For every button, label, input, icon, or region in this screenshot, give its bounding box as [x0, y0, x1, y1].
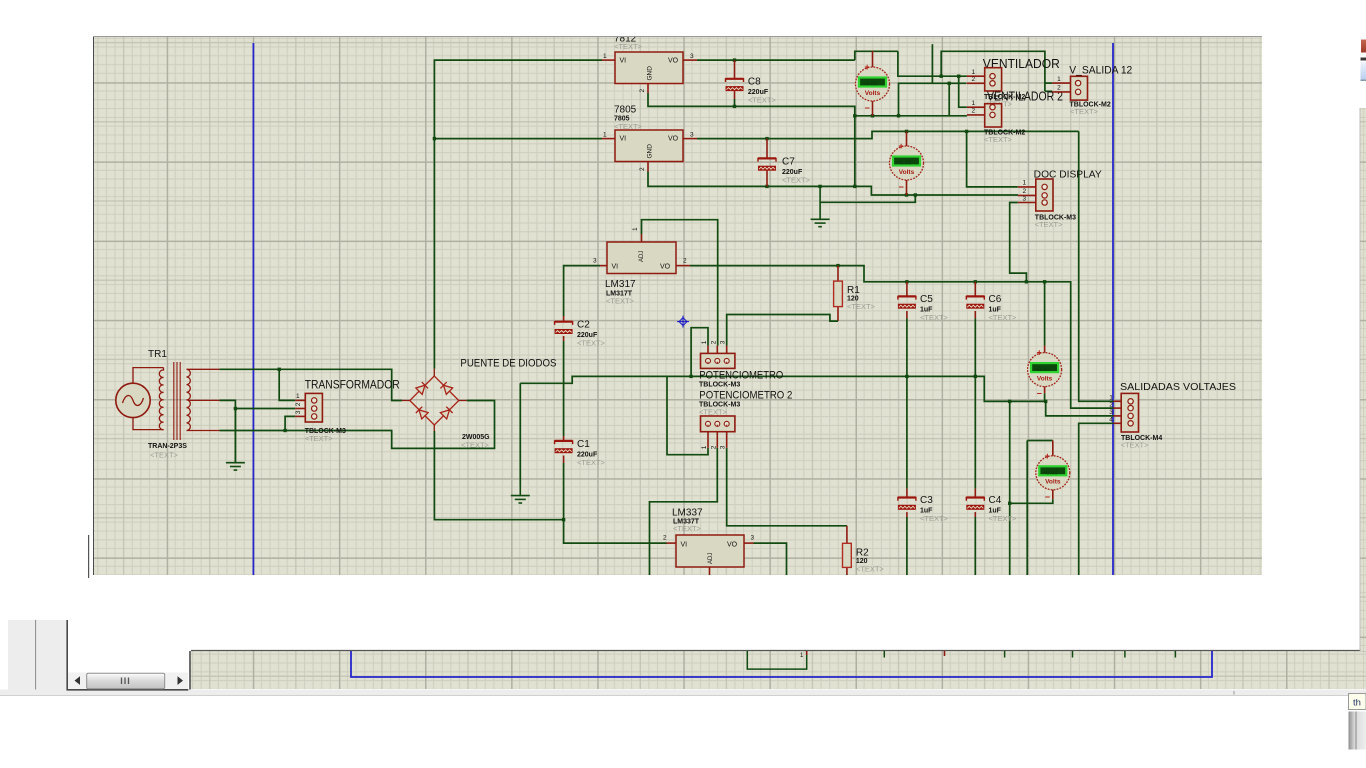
svg-text:<TEXT>: <TEXT> [305, 434, 334, 443]
svg-text:+: + [899, 141, 904, 151]
svg-text:VO: VO [668, 135, 679, 142]
wire R1 bottom lead [837, 307, 839, 322]
svg-text:TR1: TR1 [148, 349, 167, 360]
svg-text:+: + [1037, 348, 1042, 358]
svg-text:2: 2 [683, 258, 687, 265]
svg-text:C6: C6 [989, 294, 1002, 305]
svg-text:VO: VO [660, 263, 671, 270]
svg-text:+: + [865, 62, 870, 72]
C2 lead [563, 316, 565, 322]
svg-text:R1: R1 [847, 285, 860, 296]
svg-text:C5: C5 [920, 294, 933, 305]
wire R2 bottom lead [846, 567, 848, 575]
wire to LM337 input [564, 520, 667, 543]
C1 lead [563, 436, 565, 441]
svg-text:VI: VI [620, 57, 627, 64]
svg-text:SALIDADAS VOLTAJES: SALIDADAS VOLTAJES [1120, 382, 1236, 393]
svg-text:+0.00: +0.00 [1043, 470, 1058, 476]
capacitor C6 [966, 296, 984, 299]
svg-text:1: 1 [1022, 180, 1026, 187]
wire R2 top lead [846, 526, 848, 544]
wire LM337 output [754, 543, 787, 575]
voltmeter VM1 [872, 51, 874, 68]
terminal block DOC DISPLAY (TBLOCK-M3) [1036, 179, 1053, 211]
wire volt3 minus [1044, 393, 1046, 401]
svg-text:1: 1 [971, 69, 975, 76]
svg-text:ADJ: ADJ [708, 553, 714, 564]
svg-text:LM337: LM337 [672, 508, 703, 519]
svg-text:1: 1 [971, 100, 975, 107]
svg-text:1: 1 [603, 53, 607, 60]
wire sec mid to tblock pin2 [219, 400, 295, 408]
terminal block VENTILADOR 2 (TBLOCK-M2) [985, 104, 1002, 127]
strip wire fragment [747, 651, 806, 669]
wire salidadas pin4 [1079, 423, 1114, 575]
svg-text:TBLOCK-M3: TBLOCK-M3 [699, 382, 740, 389]
svg-text:TRAN-2P3S: TRAN-2P3S [148, 443, 187, 450]
svg-text:1: 1 [296, 393, 300, 400]
sheet border right [1112, 43, 1114, 575]
svg-text:<TEXT>: <TEXT> [150, 451, 179, 460]
svg-text:ADJ: ADJ [639, 251, 645, 262]
wire C1 bottom junction [563, 463, 565, 520]
svg-text:1: 1 [1057, 76, 1061, 83]
svg-text:−: − [1045, 492, 1050, 502]
svg-text:R2: R2 [856, 547, 869, 558]
wire pot2 pin3 to R2 [727, 448, 847, 526]
svg-text:2: 2 [295, 402, 302, 406]
wire ventilador2 pin2 drop [948, 83, 950, 116]
svg-text:2: 2 [971, 76, 975, 83]
svg-text:<TEXT>: <TEXT> [614, 42, 643, 51]
svg-text:PUENTE DE DIODOS: PUENTE DE DIODOS [460, 357, 556, 369]
svg-text:1: 1 [701, 445, 708, 449]
wire volt4 minus [1010, 499, 1053, 503]
C3 leads [906, 489, 908, 498]
ground G3 [226, 409, 245, 471]
wire 7805 input [434, 138, 602, 140]
svg-text:2: 2 [663, 535, 667, 542]
right edge window sliver [1361, 40, 1366, 53]
svg-text:2: 2 [971, 108, 975, 115]
svg-text:2: 2 [1057, 85, 1061, 92]
sheet border left [252, 43, 254, 575]
svg-text:C2: C2 [577, 320, 590, 331]
svg-text:Volts: Volts [1045, 479, 1061, 486]
svg-text:1: 1 [701, 340, 708, 344]
resistor R1 [834, 281, 843, 307]
C7 lead [766, 139, 768, 159]
capacitor C5 [898, 296, 916, 299]
strip sheet border [351, 651, 1212, 677]
svg-text:3: 3 [690, 132, 694, 139]
cursor crosshair [677, 316, 689, 328]
svg-text:7805: 7805 [614, 105, 637, 116]
svg-text:−: − [899, 182, 904, 192]
wire gnd1 stem top [519, 383, 521, 487]
strip wire stubs [883, 651, 885, 658]
wire doc display pin3 drop [1010, 203, 1027, 282]
C8 lead [734, 60, 736, 79]
svg-text:<TEXT>: <TEXT> [1070, 107, 1099, 116]
svg-text:+: + [1045, 451, 1050, 461]
wire main DC+ vertical rail [434, 60, 602, 369]
svg-text:<TEXT>: <TEXT> [920, 514, 949, 523]
capacitor C1 [555, 441, 573, 444]
right grid sliver [1360, 108, 1366, 651]
svg-text:<TEXT>: <TEXT> [989, 313, 1018, 322]
svg-text:VI: VI [612, 263, 619, 270]
svg-text:TRANSFORMADOR: TRANSFORMADOR [305, 379, 400, 391]
svg-text:VI: VI [620, 135, 627, 142]
wire C3 bottom [906, 517, 908, 575]
wire net down-left of volt4 [1009, 401, 1011, 575]
svg-text:C7: C7 [782, 157, 795, 168]
wire 7812 gnd [648, 93, 855, 186]
svg-text:Volts: Volts [899, 169, 915, 176]
wire ventilador2 pin1 drop [959, 76, 967, 107]
svg-text:3: 3 [593, 258, 597, 265]
LM337 adj stub [709, 567, 711, 575]
svg-text:3: 3 [720, 340, 727, 344]
terminal block V_SALIDA12 (TBLOCK-M2) [1071, 76, 1088, 100]
svg-text:V_SALIDA 12: V_SALIDA 12 [1069, 65, 1132, 77]
svg-text:−: − [1037, 389, 1042, 399]
svg-text:VO: VO [668, 57, 679, 64]
regulator U3 7812 [615, 52, 683, 84]
C6 leads [974, 282, 976, 297]
svg-text:2: 2 [710, 445, 717, 449]
AC source V1 [116, 383, 150, 417]
wire gnd long line [520, 376, 1113, 416]
wire bridge bottom rail [434, 431, 563, 520]
svg-text:C8: C8 [748, 77, 761, 88]
wire tblock transformador pin3 [285, 416, 295, 430]
svg-text:+0.00: +0.00 [897, 161, 912, 167]
svg-text:<TEXT>: <TEXT> [577, 458, 606, 467]
svg-text:−: − [865, 103, 870, 113]
svg-text:POTENCIOMETRO: POTENCIOMETRO [699, 370, 783, 382]
svg-text:<TEXT>: <TEXT> [782, 176, 811, 185]
voltmeter VM4 [1052, 441, 1054, 457]
svg-text:<TEXT>: <TEXT> [989, 514, 1018, 523]
diode D1d [440, 407, 452, 419]
scrollbar corner piece [1349, 712, 1366, 750]
capacitor C8 [726, 79, 744, 82]
svg-text:2: 2 [710, 340, 717, 344]
terminal block VENTILADOR (TBLOCK-M2) [985, 68, 1002, 91]
terminal block POTENCIOMETRO (TBLOCK-M3) [701, 353, 735, 368]
bottom schematic strip [191, 651, 1366, 689]
svg-text:3: 3 [295, 410, 302, 414]
wire sec bottom rail [219, 401, 494, 449]
wire doc display pin1 drop [967, 131, 1018, 187]
wire transformer sec top to bridge [219, 369, 402, 400]
wire R1 top lead [837, 266, 839, 282]
capacitor C7 [758, 158, 776, 161]
wire 7812 output to V salida net [697, 59, 855, 61]
diode D1b [440, 382, 452, 394]
window frame corner [67, 620, 188, 690]
svg-text:VI: VI [681, 541, 688, 548]
main schematic canvas [94, 37, 1262, 575]
svg-text:<TEXT>: <TEXT> [606, 297, 635, 306]
tooltip [1349, 694, 1366, 710]
svg-text:<TEXT>: <TEXT> [920, 313, 949, 322]
wire gnd3 stem [234, 409, 236, 463]
svg-text:<TEXT>: <TEXT> [1035, 220, 1064, 229]
wire LM317 adj to pot [642, 220, 718, 346]
wire pot2 pin2 down [650, 448, 718, 575]
svg-text:<TEXT>: <TEXT> [461, 441, 490, 450]
svg-text:1: 1 [632, 227, 639, 231]
wire LM317 input from C2 [564, 266, 600, 316]
regulator U2 7805 [615, 130, 683, 162]
wire 7805 gnd line [648, 172, 1018, 196]
svg-text:<TEXT>: <TEXT> [847, 302, 876, 311]
svg-text:GND: GND [647, 144, 654, 159]
svg-text:C1: C1 [577, 439, 590, 450]
wire C4 bottom [974, 517, 976, 575]
diode D1a [416, 382, 428, 394]
svg-text:VENTILADOR 2: VENTILADOR 2 [987, 89, 1063, 103]
wire ground under voltmeter1 [855, 115, 967, 117]
svg-text:+0.00: +0.00 [1035, 367, 1050, 373]
wire salidadas pin1 [1079, 131, 1114, 401]
svg-text:Volts: Volts [1037, 375, 1053, 382]
wire tblock transformador pin1 [279, 369, 295, 400]
stray window edge line [88, 535, 90, 578]
left gray panel [8, 620, 67, 690]
svg-text:Volts: Volts [865, 90, 881, 97]
wire C2-C1 link [563, 341, 565, 436]
svg-text:2: 2 [639, 89, 646, 93]
wire gnd stub line [820, 195, 915, 202]
svg-text:<TEXT>: <TEXT> [673, 524, 702, 533]
svg-text:3: 3 [1022, 195, 1026, 202]
svg-text:+0.00: +0.00 [863, 82, 878, 88]
terminal block SALIDADAS VOLTAJES (TBLOCK-M4) [1121, 393, 1138, 432]
wire R1 bottom to pot pin3 [727, 315, 838, 346]
svg-text:C4: C4 [989, 495, 1002, 506]
svg-text:3: 3 [720, 445, 727, 449]
svg-text:3: 3 [1109, 409, 1113, 416]
diode D1c [416, 407, 428, 419]
resistor R2 [843, 543, 852, 567]
svg-text:<TEXT>: <TEXT> [1121, 441, 1150, 450]
wire C6-C4 vertical [974, 318, 976, 488]
wire pot1 pin1 to gnd line [691, 328, 708, 377]
svg-text:C3: C3 [920, 495, 933, 506]
wire pot2 pin1 loop [667, 376, 708, 454]
wire ventilador pin2 net [899, 83, 967, 116]
svg-text:3: 3 [690, 53, 694, 60]
svg-text:3: 3 [751, 535, 755, 542]
svg-text:LM317: LM317 [605, 279, 636, 290]
C4 leads [974, 489, 976, 498]
voltmeter VM2 [906, 131, 908, 147]
svg-text:VO: VO [727, 541, 738, 548]
svg-text:<TEXT>: <TEXT> [699, 408, 728, 417]
voltmeter VM3 [1044, 346, 1046, 354]
svg-text:<TEXT>: <TEXT> [577, 339, 606, 348]
wire branch to V_SALIDA12 [941, 51, 1045, 91]
ground G1 [511, 487, 530, 503]
svg-text:<TEXT>: <TEXT> [856, 564, 885, 573]
capacitor C3 [898, 498, 916, 501]
svg-text:4: 4 [1109, 417, 1113, 424]
svg-text:2: 2 [1109, 401, 1113, 408]
horizontal scrollbar [68, 673, 188, 690]
svg-text:1: 1 [603, 132, 607, 139]
wire volt4 plus [1027, 440, 1053, 442]
svg-text:<TEXT>: <TEXT> [748, 96, 777, 105]
svg-text:GND: GND [647, 66, 654, 81]
capacitor C4 [966, 498, 984, 501]
wire C8 bottom lead [734, 99, 736, 106]
svg-text:2: 2 [1022, 188, 1026, 195]
svg-text:<TEXT>: <TEXT> [984, 135, 1013, 144]
capacitor C2 [555, 322, 573, 325]
status strip under canvas [0, 690, 1366, 696]
svg-text:2: 2 [639, 167, 646, 171]
C5 leads [906, 282, 908, 297]
terminal block POTENCIOMETRO 2 (TBLOCK-M3) [701, 416, 735, 432]
ground G2 [811, 186, 830, 226]
svg-text:POTENCIOMETRO 2: POTENCIOMETRO 2 [699, 389, 792, 401]
wire LM317 output node [690, 266, 1113, 409]
wire C5-C3 vertical [906, 318, 908, 488]
wire volt3 plus [1044, 282, 1046, 346]
wire 7805 output rail [697, 131, 1079, 138]
terminal block TRANSFORMADOR (TBLOCK-M3) [305, 393, 322, 422]
svg-text:th: th [1353, 698, 1361, 709]
